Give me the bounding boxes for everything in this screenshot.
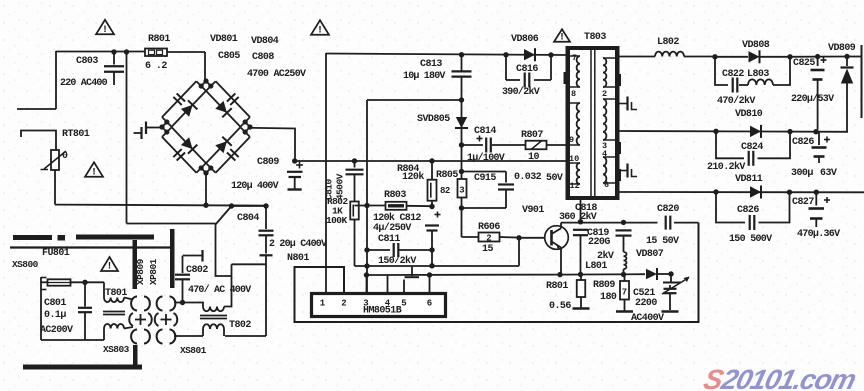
svg-text:C813: C813	[420, 59, 442, 70]
svg-text:15: 15	[482, 244, 493, 255]
svg-text:3: 3	[459, 186, 464, 196]
svg-text:82: 82	[440, 186, 450, 196]
svg-text:R803: R803	[384, 190, 406, 201]
svg-text:!: !	[91, 167, 97, 178]
svg-text:VD807: VD807	[636, 249, 664, 260]
svg-text:C804: C804	[237, 213, 259, 224]
svg-text:AC200V: AC200V	[40, 325, 73, 336]
svg-text:C826: C826	[792, 137, 814, 148]
svg-text:HM8051B: HM8051B	[363, 306, 402, 317]
svg-text:6 .2: 6 .2	[145, 61, 167, 72]
svg-text:20101.com: 20101.com	[717, 364, 859, 391]
svg-text:1: 1	[320, 299, 326, 309]
svg-text:1μ/100V: 1μ/100V	[467, 152, 505, 164]
svg-text:0.1μ: 0.1μ	[44, 310, 66, 321]
svg-text:120μ 400V: 120μ 400V	[231, 181, 279, 192]
svg-text:R801: R801	[148, 34, 170, 45]
svg-text:8: 8	[571, 89, 576, 99]
svg-text:50V: 50V	[546, 173, 563, 184]
svg-text:7: 7	[572, 53, 577, 63]
svg-text:C814: C814	[474, 126, 496, 137]
svg-text:R801: R801	[546, 281, 568, 292]
svg-text:VD811: VD811	[735, 174, 763, 185]
svg-text:15 50V: 15 50V	[646, 236, 679, 247]
svg-text:7: 7	[622, 288, 627, 298]
svg-text:180: 180	[600, 292, 617, 303]
svg-text:C822: C822	[722, 69, 744, 80]
svg-text:N801: N801	[287, 253, 309, 264]
svg-text:2200: 2200	[635, 298, 657, 309]
svg-text:!: !	[317, 25, 323, 36]
svg-text:C824: C824	[741, 142, 763, 153]
svg-text:XS800: XS800	[12, 259, 39, 270]
svg-text:C808: C808	[252, 52, 274, 63]
svg-text:220G: 220G	[588, 237, 610, 248]
svg-text:SVD805: SVD805	[417, 114, 450, 125]
svg-text:!: !	[106, 262, 112, 273]
svg-text:C826: C826	[737, 205, 759, 216]
svg-text:360 2kV: 360 2kV	[559, 211, 597, 223]
svg-text:2 20μ C400V: 2 20μ C400V	[269, 239, 327, 250]
svg-text:C915: C915	[474, 173, 496, 184]
svg-text:6: 6	[604, 180, 609, 190]
svg-text:VD806: VD806	[511, 34, 539, 45]
svg-text:FU801: FU801	[42, 248, 70, 259]
svg-text:T803: T803	[584, 32, 606, 43]
svg-text:9: 9	[569, 135, 574, 145]
svg-text:2: 2	[341, 299, 346, 309]
svg-text:100K: 100K	[326, 215, 347, 226]
svg-text:2: 2	[486, 234, 491, 244]
svg-text:3: 3	[363, 299, 368, 309]
svg-text:C811: C811	[378, 234, 400, 245]
svg-text:V901: V901	[522, 205, 544, 216]
svg-text:5: 5	[401, 299, 406, 309]
svg-text:XS803: XS803	[103, 344, 130, 355]
svg-text:C827: C827	[792, 197, 814, 208]
svg-text:R809: R809	[593, 280, 615, 291]
svg-text:4: 4	[385, 299, 391, 309]
svg-text:C802: C802	[186, 265, 208, 276]
svg-text:0.56: 0.56	[549, 301, 571, 312]
svg-text:4μ/250V: 4μ/250V	[373, 222, 411, 234]
svg-text:VD810: VD810	[735, 109, 763, 120]
svg-text:300μ: 300μ	[791, 168, 813, 179]
svg-text:10: 10	[569, 154, 579, 164]
svg-text:C820: C820	[657, 204, 679, 215]
svg-text:VD804: VD804	[251, 36, 279, 47]
svg-text:0: 0	[62, 151, 68, 162]
svg-text:470/2kV: 470/2kV	[717, 95, 755, 107]
svg-text:RT801: RT801	[62, 129, 90, 140]
svg-text:!: !	[102, 25, 108, 36]
svg-text:R606: R606	[478, 222, 500, 233]
svg-text:470/ AC 400V: 470/ AC 400V	[188, 284, 251, 296]
svg-text:!: !	[559, 32, 565, 43]
svg-text:12: 12	[570, 181, 580, 191]
svg-text:VD801: VD801	[210, 34, 238, 45]
svg-text:10μ 180V: 10μ 180V	[403, 71, 445, 82]
svg-text:C809: C809	[257, 157, 279, 168]
svg-text:470μ.36V: 470μ.36V	[797, 229, 840, 240]
svg-text:C805: C805	[218, 51, 240, 62]
svg-text:VD808: VD808	[742, 40, 770, 51]
svg-text:120k: 120k	[402, 171, 424, 183]
svg-text:4: 4	[602, 149, 607, 159]
svg-text:0.032: 0.032	[514, 172, 542, 183]
svg-text:L801: L801	[585, 261, 607, 272]
svg-text:C816: C816	[516, 64, 538, 75]
svg-text:L803: L803	[747, 69, 769, 80]
svg-text:AC400V: AC400V	[631, 313, 664, 324]
svg-text:C803: C803	[76, 56, 98, 67]
svg-text:220μ/53V: 220μ/53V	[791, 93, 834, 105]
svg-text:220 AC400: 220 AC400	[60, 78, 108, 89]
svg-text:R807: R807	[521, 130, 543, 141]
svg-text:XP809: XP809	[135, 258, 146, 285]
svg-text:L802: L802	[657, 37, 679, 48]
svg-text:2: 2	[602, 89, 607, 99]
svg-text:T802: T802	[229, 320, 251, 331]
svg-text:C801: C801	[44, 298, 66, 309]
svg-text:63V: 63V	[820, 168, 837, 179]
svg-text:390/2kV: 390/2kV	[502, 86, 540, 98]
svg-text:VD809: VD809	[828, 43, 856, 54]
svg-text:4700 AC250V: 4700 AC250V	[247, 69, 306, 80]
svg-text:C825: C825	[793, 58, 815, 69]
svg-text:210.2kV: 210.2kV	[707, 161, 745, 173]
svg-text:T801: T801	[105, 288, 127, 299]
svg-text:XP801: XP801	[148, 258, 159, 285]
svg-text:6: 6	[427, 299, 432, 309]
svg-text:150 500V: 150 500V	[729, 234, 772, 245]
svg-text:10: 10	[528, 152, 539, 163]
svg-text:XS801: XS801	[180, 345, 207, 356]
svg-text:R805: R805	[436, 170, 458, 181]
